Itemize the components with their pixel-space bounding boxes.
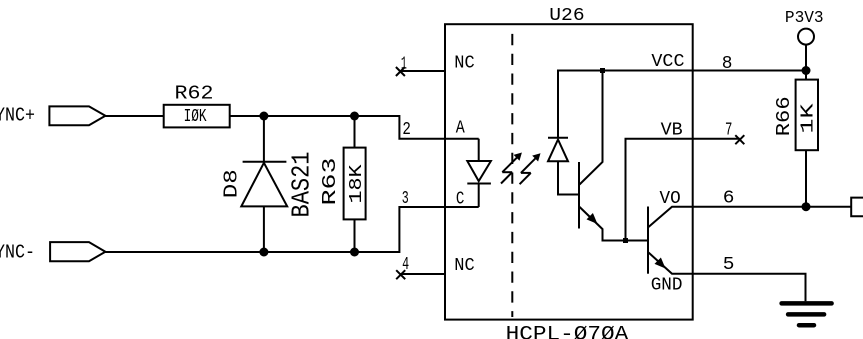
light arrow 2 — [520, 158, 537, 185]
wire port to R62 — [105, 115, 163, 117]
transistor Q2 — [647, 207, 649, 274]
svg-text:HCPL-Ø7ØA: HCPL-Ø7ØA — [506, 324, 629, 339]
pin 8 wire — [693, 70, 806, 72]
wire R62 to corner pin2 — [230, 116, 479, 139]
svg-text:5: 5 — [723, 255, 735, 275]
junction dots bottom rail — [259, 248, 268, 257]
light arrow 1 — [501, 157, 518, 184]
svg-text:SYNC+: SYNC+ — [0, 105, 35, 127]
svg-text:18K: 18K — [347, 164, 367, 203]
svg-text:8: 8 — [722, 54, 733, 74]
photodiode — [548, 137, 568, 139]
dashed isolation line — [511, 34, 513, 317]
svg-text:NC: NC — [454, 256, 475, 276]
svg-text:C: C — [456, 190, 465, 210]
diode D8 — [243, 161, 287, 163]
svg-text:R66: R66 — [773, 96, 795, 136]
bottom rail wire — [105, 207, 478, 252]
svg-text:A: A — [456, 119, 465, 139]
junction dots top rail — [259, 112, 268, 121]
resistor R63 — [354, 116, 356, 148]
pin 4 wire with no-connect X — [401, 273, 445, 275]
svg-text:BAS21: BAS21 — [287, 152, 317, 218]
port SYNC- — [50, 242, 105, 261]
svg-text:1: 1 — [401, 54, 407, 74]
svg-text:U26: U26 — [549, 5, 584, 26]
svg-text:GND: GND — [651, 276, 683, 296]
svg-text:6: 6 — [723, 189, 735, 209]
svg-text:R63: R63 — [319, 158, 341, 206]
wire top rail to D8 — [263, 116, 265, 162]
junction dot pin8 / P3V3 / R66 — [802, 66, 811, 75]
svg-text:SYNC-: SYNC- — [0, 241, 35, 263]
resistor R66 — [805, 71, 807, 80]
pin 7 wire with no-connect X — [693, 138, 740, 140]
VCC rail inside IC — [558, 71, 693, 138]
svg-text:7: 7 — [725, 120, 732, 140]
IC U26 box — [445, 24, 693, 319]
svg-text:NC: NC — [454, 53, 475, 73]
svg-text:IØK: IØK — [184, 106, 208, 127]
svg-text:VB: VB — [661, 120, 683, 140]
transistor Q1 — [578, 162, 580, 229]
svg-text:P3V3: P3V3 — [785, 9, 824, 28]
port VO right — [851, 198, 863, 217]
junction dot pin6 / R66 — [802, 202, 811, 211]
internal LED — [478, 139, 480, 161]
svg-text:R62: R62 — [175, 83, 214, 105]
svg-text:2: 2 — [402, 120, 411, 140]
svg-text:VCC: VCC — [651, 52, 684, 72]
VB wire — [626, 139, 693, 241]
port SYNC+ — [49, 106, 105, 125]
svg-text:1K: 1K — [799, 103, 819, 133]
ground — [782, 303, 832, 325]
pin 1 wire with no-connect X — [400, 70, 445, 72]
junction dot Q1 collector / VCC — [600, 68, 605, 73]
svg-text:3: 3 — [402, 189, 409, 209]
svg-text:D8: D8 — [221, 169, 243, 198]
pin 6 wire — [693, 206, 852, 208]
junction dot VB / base — [623, 238, 628, 243]
svg-text:4: 4 — [402, 255, 409, 275]
pin 5 wire — [693, 274, 806, 302]
resistor R62 — [164, 105, 230, 128]
